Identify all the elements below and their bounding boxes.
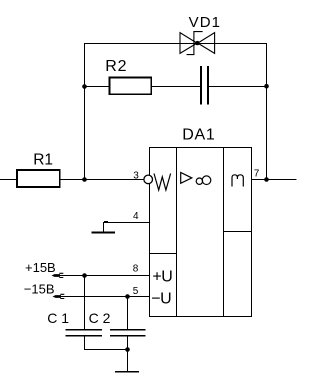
capacitor C2 (89, 310, 146, 336)
svg-text:VD1: VD1 (189, 14, 221, 31)
diode VD1 (bidirectional zener) (180, 14, 221, 54)
-15V supply arrow (24, 281, 65, 298)
capacitor C1 (47, 310, 102, 336)
+15V supply arrow (25, 260, 63, 278)
W (balance) symbol (154, 174, 171, 191)
node junction bottom/ground (125, 347, 130, 352)
resistor R1 (17, 152, 60, 187)
wire pin 8 (+15V) (60, 275, 149, 277)
pin 3 inversion circle (144, 175, 153, 184)
resistor R2 (105, 58, 151, 94)
svg-text:8: 8 (133, 263, 139, 274)
svg-text:R2: R2 (105, 58, 127, 75)
svg-text:R1: R1 (33, 152, 53, 169)
svg-text:DA1: DA1 (182, 127, 215, 144)
wire capacitor to right rail (208, 86, 267, 88)
svg-text:C 1: C 1 (47, 310, 69, 326)
svg-text:3: 3 (133, 170, 139, 181)
op-amp DA1 (144, 127, 252, 317)
wire pin 7 output (252, 179, 297, 181)
wire C1 bottom lead (84, 336, 86, 349)
svg-text:4: 4 (133, 211, 139, 222)
infinity symbol (196, 178, 202, 184)
svg-text:+U: +U (152, 268, 172, 285)
wire left rail (84, 43, 86, 180)
svg-text:−U: −U (151, 290, 171, 307)
wire C2 top lead (127, 297, 129, 330)
wire top net (84, 43, 267, 45)
node junction C1/+15V (82, 273, 87, 278)
wire R1 to pin 3 (60, 179, 144, 181)
svg-text:7: 7 (254, 168, 260, 179)
svg-text:+15В: +15В (25, 260, 56, 275)
ground (bottom common) (115, 350, 139, 372)
ground (pin 4 common) (92, 223, 115, 233)
node junction cap/right rail (264, 84, 269, 89)
wire pin 5 (-15V) (61, 296, 149, 298)
m symbol (232, 175, 243, 187)
node junction C2/-15V (125, 294, 130, 299)
svg-text:C 2: C 2 (89, 310, 111, 326)
capacitor feedback (unlabeled) (201, 66, 208, 105)
wire C2 bottom lead (127, 336, 129, 349)
wire right rail (266, 43, 268, 180)
node junction R2/left rail (82, 84, 87, 89)
wire C1 top lead (84, 276, 86, 330)
wire R2 left (84, 86, 109, 88)
svg-text:−15В: −15В (24, 281, 55, 296)
wire input to R1 (0, 179, 17, 181)
svg-text:5: 5 (133, 286, 139, 297)
wire R2 to capacitor (151, 86, 201, 88)
wire pin 4 (103, 222, 149, 224)
amplifier triangle (181, 173, 192, 184)
node junction pin7/right rail (264, 177, 269, 182)
node junction R1/left rail (82, 177, 87, 182)
wire bottom common (84, 349, 128, 351)
